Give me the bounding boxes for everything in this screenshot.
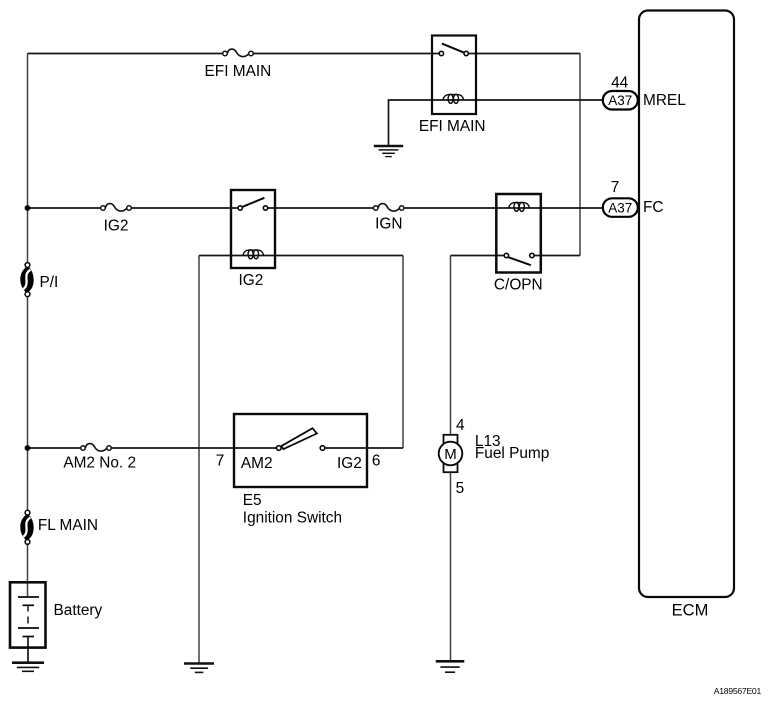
- svg-text:AM2: AM2: [241, 455, 273, 472]
- svg-text:6: 6: [372, 452, 381, 469]
- svg-text:7: 7: [216, 453, 225, 470]
- svg-text:Fuel Pump: Fuel Pump: [475, 445, 549, 462]
- svg-text:ECM: ECM: [672, 601, 709, 619]
- svg-text:A37: A37: [608, 200, 632, 215]
- svg-text:5: 5: [456, 480, 465, 497]
- svg-text:MREL: MREL: [643, 92, 686, 109]
- svg-text:IGN: IGN: [375, 216, 402, 233]
- svg-text:Battery: Battery: [54, 602, 103, 619]
- svg-text:AM2 No. 2: AM2 No. 2: [63, 455, 136, 472]
- svg-text:IG2: IG2: [104, 218, 129, 235]
- svg-text:IG2: IG2: [238, 272, 263, 289]
- svg-text:EFI MAIN: EFI MAIN: [419, 118, 486, 135]
- svg-text:4: 4: [456, 417, 465, 434]
- svg-text:EFI MAIN: EFI MAIN: [205, 63, 272, 80]
- svg-text:A189567E01: A189567E01: [714, 686, 762, 696]
- svg-text:FC: FC: [643, 199, 664, 216]
- svg-text:M: M: [444, 446, 457, 463]
- svg-text:Ignition Switch: Ignition Switch: [243, 510, 342, 527]
- svg-text:C/OPN: C/OPN: [494, 276, 543, 293]
- svg-text:FL MAIN: FL MAIN: [38, 517, 98, 534]
- svg-text:P/I: P/I: [40, 274, 59, 291]
- svg-text:44: 44: [611, 75, 629, 92]
- svg-text:7: 7: [611, 179, 620, 196]
- svg-text:E5: E5: [243, 492, 262, 509]
- svg-text:A37: A37: [608, 93, 632, 108]
- svg-text:IG2: IG2: [337, 455, 362, 472]
